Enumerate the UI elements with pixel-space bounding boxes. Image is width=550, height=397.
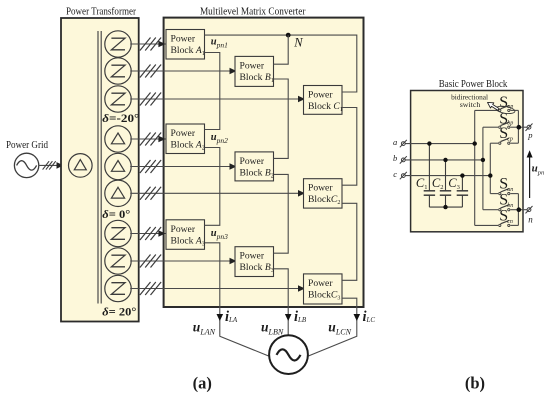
power block C2 <box>304 179 343 208</box>
winding 9 circle <box>105 275 131 301</box>
switch S_an <box>490 176 518 195</box>
junction dot n <box>517 207 522 212</box>
svg-text:Multilevel Matrix Converter: Multilevel Matrix Converter <box>200 7 306 18</box>
arrowhead into B1 line <box>230 68 237 75</box>
wire A1.n to A2.p <box>205 53 220 130</box>
transformer box <box>61 18 139 322</box>
svg-text:Block B2: Block B2 <box>240 167 274 179</box>
arrowhead i_LC <box>354 314 361 321</box>
terminal b <box>400 156 407 163</box>
power block B3 <box>235 247 274 277</box>
3-phase slashes C3 line <box>140 282 161 295</box>
winding 2 circle <box>105 58 131 84</box>
svg-text:Basic Power Block: Basic Power Block <box>439 79 508 90</box>
arrowhead into B2 line <box>230 163 237 170</box>
wire A3.n down and out (phase A output) <box>205 243 272 357</box>
switch S_cn <box>475 207 519 226</box>
svg-text:Block C1: Block C1 <box>308 101 343 113</box>
arrowhead into C1 line <box>298 96 305 103</box>
svg-text:δ=-20°: δ=-20° <box>102 113 139 125</box>
phase-a vertical (S_ap to S_cn) <box>474 110 476 225</box>
junction dot p <box>517 125 522 130</box>
winding 4 circle <box>105 126 131 152</box>
wire B3.n down to AC source (phase B output) <box>274 269 289 335</box>
svg-text:a: a <box>393 137 397 147</box>
terminal c <box>400 172 407 179</box>
multilevel matrix converter box <box>164 18 364 307</box>
wire winding 2 to B1 line <box>130 70 234 72</box>
3-phase slashes C2 line <box>140 187 161 200</box>
svg-text:Block B3: Block B3 <box>240 262 274 274</box>
svg-text:Power: Power <box>240 156 265 167</box>
ellipse highlighting bidirectional switch <box>495 105 515 115</box>
3-phase slashes B1 line <box>140 65 161 78</box>
junction dot C1-row a <box>427 141 431 145</box>
3-phase slashes C1 line <box>140 93 161 106</box>
svg-text:Block A3: Block A3 <box>171 235 205 247</box>
basic power block box <box>411 91 523 232</box>
svg-text:Power Grid: Power Grid <box>6 140 49 151</box>
capacitor common bus <box>429 206 462 208</box>
wire winding 5 to B2 line <box>130 166 234 168</box>
arrowhead into transformer <box>57 162 64 169</box>
capacitor C1 <box>424 144 435 208</box>
3-phase slashes B2 line <box>140 160 161 173</box>
svg-text:BlockC3: BlockC3 <box>308 289 340 301</box>
power grid AC source <box>14 153 38 177</box>
power block B2 <box>235 152 274 181</box>
svg-text:Power: Power <box>240 60 265 71</box>
svg-text:cp: cp <box>507 137 513 143</box>
winding 5 circle <box>105 153 131 179</box>
wire winding 7 to A3 line <box>130 233 165 235</box>
phase-c vertical (S_cp to S_an) <box>489 143 491 193</box>
svg-text:p: p <box>527 130 532 140</box>
input row b <box>405 159 483 161</box>
wire top bus A1.p to node N to column C <box>205 35 357 92</box>
arrowhead into A1 line <box>158 41 165 48</box>
wire winding 3 to C1 line <box>130 98 303 100</box>
arrowhead i_LB <box>285 314 292 321</box>
load AC source <box>269 335 308 374</box>
wire C1.n to C2.p <box>342 108 357 186</box>
wire to n terminal <box>518 209 527 211</box>
svg-text:(a): (a) <box>193 373 212 392</box>
wire winding 4 to A2 line <box>130 138 165 140</box>
capacitor C3 <box>457 176 468 208</box>
node N dot <box>286 33 291 38</box>
svg-text:Power: Power <box>171 128 196 139</box>
switch S_ap <box>475 94 519 112</box>
wire winding 1 to A1 line <box>130 43 165 45</box>
arrowhead into B3 line <box>230 258 237 265</box>
svg-text:Power: Power <box>308 90 333 101</box>
svg-text:δ= 0°: δ= 0° <box>102 209 130 221</box>
power block B1 <box>235 56 274 86</box>
svg-text:N: N <box>293 35 303 49</box>
3-phase slashes A1 line <box>140 38 161 51</box>
wire B2.n to B3.p <box>274 174 289 253</box>
svg-text:Power: Power <box>240 251 265 262</box>
wire grid to transformer <box>39 164 62 166</box>
wire A2.n to A3.p <box>205 148 220 226</box>
phase-b vertical (S_bp to S_bn) <box>482 127 484 210</box>
switch S_bn <box>483 192 519 211</box>
winding 7 circle <box>105 220 131 246</box>
3-phase slashes A2 line <box>140 133 161 146</box>
svg-text:n: n <box>528 215 533 225</box>
wire winding 6 to C2 line <box>130 192 303 194</box>
terminal p <box>526 124 533 131</box>
power block A3 <box>166 220 205 250</box>
svg-text:Block B1: Block B1 <box>240 72 274 84</box>
junction dot C3-row c <box>460 173 464 177</box>
arrowhead into A2 line <box>158 136 165 143</box>
terminal n <box>526 206 533 213</box>
wire B1.n to B2.p <box>274 79 289 158</box>
junction dot row a end <box>473 141 477 145</box>
wire winding 9 to C3 line <box>130 288 303 290</box>
winding 3 circle <box>105 86 131 112</box>
wire winding 8 to B3 line <box>130 260 234 262</box>
svg-text:Power: Power <box>308 183 333 194</box>
svg-text:(b): (b) <box>465 373 485 392</box>
n-side bracket vertical <box>517 194 519 226</box>
power block C3 <box>304 274 343 304</box>
winding 6 circle <box>105 180 131 206</box>
capacitor C2 <box>440 160 451 207</box>
primary delta winding <box>69 154 93 178</box>
svg-text:Power Transformer: Power Transformer <box>66 7 136 18</box>
junction dot row b end <box>481 158 485 162</box>
junction dot bus <box>443 205 447 209</box>
input row c <box>405 175 490 177</box>
wire N down to B1.p <box>274 35 289 64</box>
input row a <box>405 143 475 145</box>
arrowhead into A3 line <box>158 230 165 237</box>
switch S_bp <box>483 111 519 129</box>
callout block arrow <box>486 100 500 112</box>
3-phase slashes on grid wire <box>43 161 56 169</box>
junction dot row c end <box>488 173 492 177</box>
svg-text:switch: switch <box>460 100 481 109</box>
wire C3.n down and out (phase C output) <box>305 298 357 357</box>
svg-text:b: b <box>393 153 397 163</box>
svg-text:c: c <box>393 169 397 179</box>
wire to p terminal <box>518 126 527 128</box>
power block A1 <box>166 30 205 60</box>
junction dot C2-row b <box>443 158 447 162</box>
svg-text:BlockC2: BlockC2 <box>308 194 340 206</box>
svg-text:Power: Power <box>171 224 196 235</box>
3-phase slashes B3 line <box>140 255 161 268</box>
3-phase slashes A3 line <box>140 227 161 240</box>
wire C2.n to C3.p <box>342 203 357 280</box>
arrowhead into C2 line <box>298 190 305 197</box>
svg-text:δ= 20°: δ= 20° <box>102 307 136 319</box>
power block C1 <box>304 86 343 115</box>
winding 1 circle <box>105 31 131 57</box>
svg-text:Block A1: Block A1 <box>171 45 205 57</box>
arrowhead i_LA <box>217 314 224 321</box>
svg-text:cn: cn <box>507 219 513 225</box>
terminal a <box>400 140 407 147</box>
switch S_cp <box>490 125 518 144</box>
svg-text:Power: Power <box>308 278 333 289</box>
winding 8 circle <box>105 248 131 274</box>
transformer core <box>98 31 101 304</box>
svg-text:Power: Power <box>171 34 196 45</box>
p-side bracket vertical <box>517 110 519 143</box>
arrowhead into C3 line <box>298 285 305 292</box>
power block A2 <box>166 124 205 154</box>
u_pn measurement arrow <box>529 156 531 199</box>
svg-text:Block A2: Block A2 <box>171 140 205 152</box>
